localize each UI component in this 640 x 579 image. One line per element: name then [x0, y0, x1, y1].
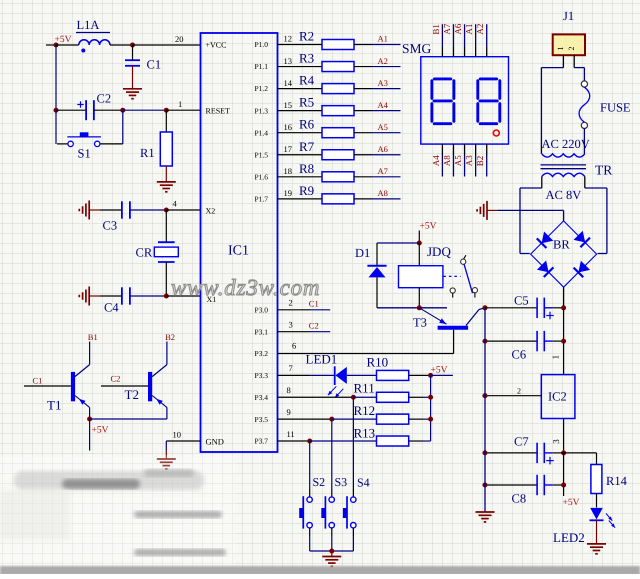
svg-text:FUSE: FUSE	[600, 101, 631, 115]
svg-text:A8: A8	[442, 155, 452, 166]
svg-text:R3: R3	[299, 51, 314, 66]
wire J1 to fuse	[574, 68, 584, 81]
svg-text:14: 14	[284, 78, 293, 88]
svg-text:C1: C1	[147, 58, 162, 72]
wire R4 to net A3	[354, 88, 401, 90]
junction bus R11	[428, 395, 433, 400]
wire R10 to +5V node	[409, 374, 431, 376]
svg-text:S4: S4	[357, 476, 370, 490]
ground IC1 GND	[157, 441, 176, 469]
wire R12 to +5V bus	[409, 418, 431, 420]
wire left vertical +5V to C2 row	[55, 45, 57, 110]
junction R12 row	[329, 417, 334, 422]
svg-text:C2: C2	[97, 92, 112, 106]
ground at bridge top	[477, 201, 498, 220]
voltage regulator IC2	[541, 375, 575, 419]
svg-text:A2: A2	[475, 24, 485, 35]
svg-text:B1: B1	[88, 332, 98, 342]
resistor R14	[591, 465, 628, 494]
svg-text:10: 10	[173, 430, 182, 440]
svg-text:D1: D1	[355, 246, 370, 260]
wire R6 to net A5	[354, 132, 401, 134]
wire T1 collector to B1	[89, 342, 91, 365]
wire VCC node to IC1 pin 20	[133, 34, 201, 45]
watermark www.dz3w.com	[171, 275, 320, 300]
svg-text:18: 18	[284, 166, 293, 176]
relay contact dashed link	[443, 275, 460, 277]
wire IC1 pin 9 to R12 row	[278, 407, 332, 419]
switch S3	[321, 475, 347, 551]
svg-text:C2: C2	[111, 374, 121, 384]
junction C2 right	[120, 108, 125, 113]
svg-text:P1.6: P1.6	[254, 172, 268, 181]
resistor R1	[140, 110, 172, 182]
net label A1	[378, 34, 388, 44]
wire C6 row left	[485, 340, 537, 342]
svg-text:J1: J1	[563, 9, 574, 23]
net label A4 (SMG bottom)	[431, 155, 441, 166]
wire R2 to net A1	[354, 44, 401, 46]
capacitor C1	[125, 45, 161, 89]
svg-text:R12: R12	[354, 403, 376, 418]
resistor R2	[299, 29, 354, 50]
bridge diode lower-left	[537, 260, 554, 277]
SMG digit 1	[432, 79, 454, 124]
resistor R7	[299, 139, 354, 160]
net label A8 (SMG bottom)	[442, 155, 452, 166]
wire junction to R13	[310, 440, 377, 442]
net label A2	[378, 56, 388, 66]
wire IC1 pin 13 to R3	[278, 56, 323, 67]
svg-text:1: 1	[551, 355, 561, 360]
wire +5V pull-up bus	[430, 375, 432, 441]
resistor R11	[354, 380, 409, 402]
svg-text:8: 8	[287, 385, 291, 395]
7-segment display SMG box	[402, 41, 509, 144]
power +5V (R10 pull-up)	[431, 365, 453, 375]
svg-text:P3.2: P3.2	[254, 349, 268, 358]
resistor R13	[354, 425, 409, 446]
junction VCC node	[130, 43, 135, 48]
junction X2 node	[164, 208, 169, 213]
wire SMG bottom pin A8	[452, 144, 454, 176]
junction relay bottom	[417, 305, 422, 310]
wire LED1 to R10	[347, 374, 377, 376]
relay switch contact	[450, 255, 477, 297]
svg-text:S3: S3	[335, 475, 348, 489]
svg-text:A5: A5	[453, 155, 463, 166]
svg-text:12: 12	[284, 34, 293, 44]
svg-text:P1.7: P1.7	[254, 194, 268, 203]
junction T3 collector node	[483, 305, 488, 310]
svg-text:1: 1	[178, 99, 182, 109]
wire J1 to TR primary left	[541, 68, 563, 154]
svg-text:LED2: LED2	[553, 530, 585, 545]
net label A3	[378, 78, 388, 88]
wire IC1 pin 15 to R5	[278, 100, 323, 111]
wire SMG bottom pin A4	[441, 144, 443, 176]
svg-text:20: 20	[175, 34, 184, 44]
transformer TR	[541, 154, 613, 178]
svg-text:R14: R14	[606, 474, 628, 488]
svg-text:A6: A6	[453, 23, 463, 34]
svg-text:19: 19	[284, 188, 293, 198]
SMG digit 2	[478, 79, 500, 124]
wire bridge bottom corner down	[563, 287, 565, 308]
wire J1 pin 2 lead	[573, 55, 575, 67]
wire R9 to net A8	[354, 198, 401, 200]
relay JDQ coil	[399, 243, 452, 308]
svg-text:P1.4: P1.4	[254, 128, 268, 137]
wire C8 row left	[485, 484, 537, 486]
svg-text:15: 15	[284, 100, 293, 110]
svg-text:T2: T2	[125, 387, 139, 402]
svg-text:+5V: +5V	[563, 498, 580, 508]
svg-text:T1: T1	[47, 398, 61, 413]
capacitor C8	[512, 475, 564, 506]
junction relay top	[417, 241, 422, 246]
junction C5 right	[561, 305, 566, 310]
svg-text:R1: R1	[140, 146, 155, 160]
wire X2 node to IC1 pin 4	[166, 199, 200, 211]
svg-text:C3: C3	[103, 219, 118, 233]
wire SMG top pin A7	[452, 24, 454, 57]
svg-text:C2: C2	[309, 320, 319, 330]
junction C6 left	[483, 339, 488, 344]
svg-text:GND: GND	[206, 437, 224, 447]
wire T3 base to IC1 pin 6	[278, 330, 454, 354]
wire T1 base	[24, 385, 71, 387]
op-amp U IC1 microcontroller box	[201, 33, 278, 452]
wire C7 row left	[485, 452, 537, 454]
resistor R9	[299, 183, 354, 204]
svg-text:C8: C8	[512, 492, 527, 506]
svg-text:9: 9	[287, 407, 291, 417]
switch S1	[56, 110, 123, 160]
wire IC1 pin 17 to R7	[278, 144, 323, 155]
capacitor C7	[514, 435, 564, 465]
junction T1/T2 emitter rail	[87, 417, 92, 422]
svg-text:IC2: IC2	[548, 390, 567, 404]
ground below LED2	[587, 544, 606, 554]
svg-text:A7: A7	[378, 166, 388, 176]
junction C8 right	[561, 483, 566, 488]
net label A1 (SMG top)	[464, 24, 474, 35]
inductor L1A	[76, 18, 110, 53]
svg-text:P3.5: P3.5	[254, 415, 268, 424]
junction RESET node	[164, 108, 169, 113]
power +5V (T1 T2 rail)	[90, 419, 109, 451]
wire SMG top pin B1	[441, 24, 443, 57]
svg-text:11: 11	[287, 429, 295, 439]
capacitor C4	[100, 287, 166, 314]
svg-text:R13: R13	[354, 425, 376, 440]
junction bus R12	[428, 417, 433, 422]
svg-text:LED1: LED1	[306, 352, 338, 367]
wire IC2 pin 2 row	[485, 387, 541, 396]
junction X1 node	[164, 294, 169, 299]
svg-text:C6: C6	[512, 348, 527, 362]
svg-text:A4: A4	[378, 100, 389, 110]
svg-text:A6: A6	[378, 144, 388, 154]
svg-text:X2: X2	[206, 207, 216, 216]
power +5V (regulator input)	[563, 485, 580, 508]
svg-text:R5: R5	[299, 95, 314, 110]
junction top-left +5V node	[54, 43, 59, 48]
wire IC2 pin 3 down	[563, 419, 565, 453]
net label A4	[378, 100, 389, 110]
svg-text:B2: B2	[165, 332, 175, 342]
wire IC1 pin 7 to LED1	[278, 363, 335, 375]
svg-text:A2: A2	[378, 56, 388, 66]
ground left of C4	[79, 287, 100, 306]
power +5V (top left)	[55, 35, 72, 45]
ground left filter rail	[476, 512, 495, 522]
svg-text:B1: B1	[431, 24, 441, 35]
wire S2 to IC1 row	[309, 441, 311, 497]
wire IC1 pin 8 to R11 row	[278, 385, 354, 397]
ground below C1	[123, 89, 142, 99]
svg-text:C1: C1	[309, 299, 319, 309]
net label A3 (SMG bottom)	[464, 155, 474, 166]
wire right rail C5-C6	[563, 308, 565, 341]
bridge diode upper-right	[573, 231, 590, 248]
net label A8	[378, 188, 388, 198]
pin label 3 (IC2)	[551, 439, 561, 444]
resistor R4	[299, 73, 354, 94]
wire T2 base	[101, 385, 148, 387]
wire IC1 pin 16 to R6	[278, 122, 323, 133]
svg-text:R2: R2	[299, 29, 314, 44]
svg-text:B2: B2	[475, 156, 485, 167]
wire left filter rail	[484, 308, 486, 512]
wire TR left to bridge left	[520, 188, 542, 254]
svg-text:TR: TR	[595, 163, 612, 178]
svg-text:C7: C7	[514, 435, 529, 449]
junction C8 left	[483, 483, 488, 488]
wire R14 to LED2	[596, 494, 598, 508]
wire C2 to RESET node	[123, 109, 167, 111]
bridge rectifier BR diamond	[531, 221, 597, 287]
bridge diode upper-left	[537, 231, 554, 248]
LED LED2	[553, 508, 615, 545]
wire LED2 to ground	[596, 520, 598, 543]
wire IC1 pin 18 to R8	[278, 166, 323, 177]
wire +5V to L1A	[56, 44, 79, 46]
svg-text:A5: A5	[378, 122, 388, 132]
wire RESET node to IC1 pin 1	[166, 99, 200, 110]
wire S4 to IC1 row	[352, 397, 354, 497]
svg-text:P3.0: P3.0	[254, 305, 268, 314]
net label C2 (P3.1)	[309, 320, 319, 330]
wire right rail to IC2 pin 1	[563, 341, 565, 375]
svg-text:+5V: +5V	[420, 222, 437, 232]
svg-text:3: 3	[551, 439, 561, 444]
wire fuse to TR primary right	[583, 129, 585, 154]
pin label 1 (IC2)	[551, 355, 561, 360]
wire IC1 pin 10 GND	[166, 430, 200, 442]
svg-text:P1.2: P1.2	[254, 84, 268, 93]
transistor T2	[125, 365, 167, 408]
wire C7 row to R14	[564, 453, 597, 465]
wire SMG top pin A2	[486, 24, 488, 57]
wire C5 row left	[485, 307, 537, 309]
svg-text:R7: R7	[299, 139, 315, 154]
svg-text:P3.4: P3.4	[254, 393, 268, 402]
svg-text:P3.1: P3.1	[254, 327, 268, 336]
net label C1 (T1 base)	[33, 375, 43, 385]
crystal CR	[136, 210, 179, 296]
fuse FUSE	[579, 81, 631, 129]
ground left of C3	[79, 201, 100, 220]
net label C2 (T2 base)	[111, 374, 121, 384]
ground below switches	[322, 551, 341, 566]
resistor R10	[367, 355, 409, 381]
junction switch rail	[329, 549, 334, 554]
wire SMG bottom pin A5	[464, 144, 466, 176]
resistor R8	[299, 161, 354, 182]
wire SMG top pin A6	[464, 24, 466, 57]
svg-text:P1.5: P1.5	[254, 150, 268, 159]
svg-text:P1.1: P1.1	[254, 62, 268, 71]
junction R10 +5V	[428, 373, 433, 378]
smudge artifact bottom band	[0, 566, 640, 575]
wire IC1 pin 11 to R13 row	[278, 429, 310, 441]
net label B2 (SMG bottom)	[475, 156, 485, 167]
net label A7	[378, 166, 388, 176]
wire S3 to IC1 row	[331, 419, 333, 497]
capacitor C2	[56, 92, 123, 121]
wire R7 to net A6	[354, 154, 401, 156]
wire ground to bridge top corner	[498, 210, 564, 221]
wire IC1 pin 14 to R4	[278, 78, 323, 89]
svg-text:S2: S2	[313, 475, 326, 489]
svg-text:17: 17	[284, 144, 293, 154]
svg-text:S1: S1	[78, 147, 91, 161]
junction R13 row	[307, 439, 312, 444]
wire R8 to net A7	[354, 176, 401, 178]
svg-text:13: 13	[284, 56, 293, 66]
svg-text:16: 16	[284, 122, 293, 132]
svg-text:R9: R9	[299, 183, 314, 198]
wire SMG bottom pin A3	[475, 144, 477, 176]
junction C6 right	[561, 339, 566, 344]
wire relay bottom to T3	[419, 307, 447, 309]
wire right rail C7-C8	[563, 453, 565, 485]
power +5V (relay)	[419, 222, 436, 244]
svg-text:BR: BR	[553, 238, 570, 252]
wire relay bottom rail	[377, 307, 419, 309]
junction C7 right	[561, 450, 566, 455]
capacitor C6	[512, 331, 564, 362]
svg-text:A3: A3	[464, 155, 474, 166]
wire L1A to VCC node	[110, 44, 133, 46]
junction C2 left	[54, 108, 59, 113]
resistor R6	[299, 117, 354, 138]
svg-text:7: 7	[289, 363, 293, 373]
svg-text:C5: C5	[514, 294, 529, 308]
wire X1 node to IC1 pin X1	[166, 295, 200, 297]
net label A6 (SMG top)	[453, 23, 463, 34]
wire R3 to net A2	[354, 66, 401, 68]
svg-text:L1A: L1A	[77, 18, 100, 32]
svg-text:A1: A1	[464, 24, 474, 35]
wire relay top to D1	[377, 242, 419, 244]
wire switch ground rail	[310, 550, 354, 552]
wire junction to R12	[332, 418, 377, 420]
wire R13 to +5V bus	[409, 440, 431, 442]
net label A7 (SMG top)	[442, 23, 452, 34]
SMG decimal point	[493, 130, 499, 136]
svg-text:+5V: +5V	[431, 365, 448, 375]
net label A5	[378, 122, 388, 132]
wire IC1 pin 2 (P3.0) net C1	[278, 298, 331, 310]
svg-text:JDQ: JDQ	[427, 244, 451, 259]
resistor R3	[299, 51, 354, 72]
wire IC1 pin 3 (P3.1) net C2	[278, 319, 331, 331]
net label A6	[378, 144, 388, 154]
wire TR right to bridge right	[585, 188, 607, 254]
svg-text:A8: A8	[378, 188, 388, 198]
wire IC1 pin 12 to R2	[278, 34, 323, 45]
wire IC1 pin 19 to R9	[278, 188, 323, 199]
bridge diode lower-right	[574, 261, 591, 278]
svg-text:C4: C4	[104, 301, 119, 315]
svg-text:RESET: RESET	[206, 107, 231, 116]
junction IC2 pin2 left	[483, 393, 488, 398]
wire R5 to net A4	[354, 110, 401, 112]
net label B1 (SMG top)	[431, 24, 441, 35]
svg-text:CR: CR	[136, 246, 153, 260]
switch S4	[343, 476, 370, 552]
svg-text:R10: R10	[367, 355, 389, 370]
svg-text:2: 2	[517, 387, 521, 396]
svg-text:IC1: IC1	[228, 244, 249, 259]
wire top rail left stub	[46, 44, 56, 46]
svg-text:+VCC: +VCC	[206, 41, 227, 50]
connector J1	[553, 9, 585, 55]
LED LED1	[306, 352, 347, 398]
resistor R12	[354, 403, 409, 424]
svg-text:R4: R4	[299, 73, 315, 88]
smudge artifact bottom-left	[0, 455, 235, 574]
wire R11 to +5V bus	[409, 396, 431, 398]
svg-text:AC 8V: AC 8V	[546, 188, 582, 202]
net label A5 (SMG bottom)	[453, 155, 463, 166]
svg-text:P1.3: P1.3	[254, 106, 268, 115]
svg-text:P1.0: P1.0	[254, 40, 268, 49]
wire TR secondary right lead	[584, 177, 586, 189]
capacitor C3	[100, 201, 166, 232]
svg-text:2: 2	[567, 47, 576, 51]
svg-text:R11: R11	[354, 380, 375, 395]
resistor R5	[299, 95, 354, 116]
transistor T1	[47, 365, 90, 413]
label AC 220V	[542, 137, 590, 151]
svg-text:A4: A4	[431, 155, 441, 166]
junction C7 left	[483, 450, 488, 455]
wire SMG bottom pin B2	[486, 144, 488, 176]
svg-text:3: 3	[289, 319, 293, 329]
svg-text:A7: A7	[442, 23, 452, 34]
svg-text:1: 1	[556, 47, 565, 51]
capacitor C5	[514, 294, 564, 320]
diode D1	[355, 243, 387, 308]
wire TR secondary left lead	[541, 177, 543, 189]
svg-text:C1: C1	[33, 375, 43, 385]
wire T2 collector to B2	[166, 342, 168, 365]
svg-text:A1: A1	[378, 34, 388, 44]
